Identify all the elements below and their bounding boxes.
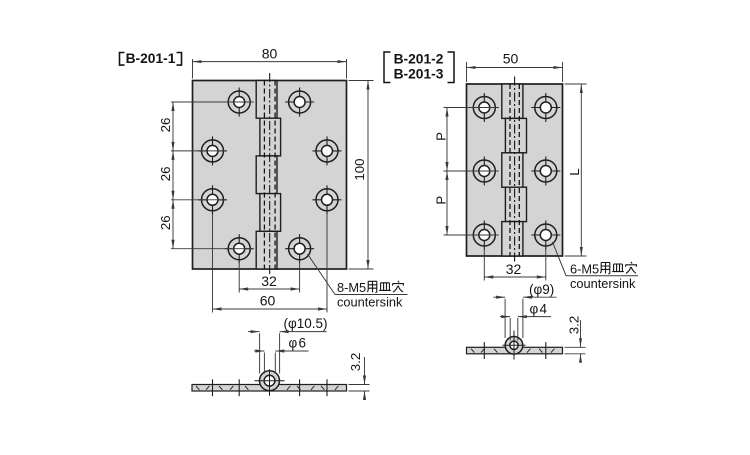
dimension P chain vertical line	[445, 108, 448, 236]
dimension phi4	[500, 302, 551, 341]
dimension 100 right height	[349, 81, 374, 270]
svg-text:3.2: 3.2	[348, 353, 363, 372]
svg-text:P: P	[433, 196, 448, 205]
svg-text:26: 26	[158, 118, 173, 133]
svg-text:φ6: φ6	[289, 335, 308, 350]
left hinge knuckle segment 3	[256, 156, 277, 194]
left hinge knuckle segment 1	[256, 81, 277, 119]
svg-text:φ9): φ9)	[534, 282, 555, 297]
right hinge knuckle segment 3	[502, 153, 523, 187]
left hinge B-201-1 front view	[193, 73, 347, 277]
countersunk hole left-hinge row2 right	[313, 136, 342, 165]
left hinge pin centerline	[269, 73, 271, 277]
left section knuckle circle outer	[260, 371, 280, 391]
svg-text:50: 50	[503, 51, 519, 67]
right hinge knuckle segment 2	[505, 118, 526, 152]
right section view bar	[467, 347, 563, 354]
right hinge pin hidden line right	[518, 84, 520, 256]
dimension 80 top width	[193, 46, 347, 79]
dimension 26 row extension lines	[171, 102, 254, 249]
svg-text:6-M5: 6-M5	[570, 261, 599, 276]
right hinge knuckle segment 5	[502, 222, 523, 256]
dimension 3.2 right section	[565, 316, 586, 363]
countersunk hole left-hinge row4 left	[225, 234, 254, 263]
svg-text:B-201-1: B-201-1	[126, 51, 176, 66]
countersunk hole left-hinge row1 right	[285, 88, 314, 117]
countersunk hole right-hinge row1 right	[531, 93, 560, 122]
countersunk hole left-hinge row3 left	[198, 185, 227, 214]
svg-text:B-201-3: B-201-3	[394, 67, 444, 82]
dimension 50 top width	[467, 51, 563, 83]
countersunk hole right-hinge row3 right	[531, 221, 560, 250]
right section pin hole circle	[510, 341, 518, 349]
left hinge body plate	[193, 81, 347, 270]
dimension phi10.5	[248, 316, 328, 373]
dimension 60 left view	[213, 214, 328, 313]
right hinge knuckle segment 4	[505, 187, 526, 221]
annotation 8-M5 countersink japanese	[337, 280, 403, 295]
countersunk hole right-hinge row1 left	[470, 93, 499, 122]
dimension 26 chain vertical line	[171, 102, 174, 249]
left hinge knuckle segment 5	[256, 231, 277, 269]
svg-text:80: 80	[262, 46, 278, 62]
svg-text:countersink: countersink	[337, 295, 403, 310]
svg-text:100: 100	[352, 158, 367, 180]
dimension 32 right view	[484, 249, 546, 281]
dimension phi6	[254, 335, 309, 373]
svg-text:8-M5: 8-M5	[337, 280, 366, 295]
countersunk hole left-hinge row3 right	[313, 185, 342, 214]
left hinge knuckle segment 4	[260, 194, 281, 232]
right hinge body plate	[467, 84, 563, 256]
svg-text:3.2: 3.2	[566, 316, 581, 335]
dimension P row extension lines	[444, 108, 500, 236]
svg-text:26: 26	[158, 166, 173, 181]
svg-text:φ10.5): φ10.5)	[288, 316, 328, 331]
dimension 3.2 left section	[348, 353, 369, 400]
left section pin hole circle	[264, 375, 275, 386]
dimension L right height	[565, 84, 587, 256]
right section hatch marks	[471, 349, 554, 353]
svg-text:B-201-2: B-201-2	[394, 52, 444, 67]
countersunk hole left-hinge row2 left	[198, 136, 227, 165]
svg-text:φ4: φ4	[530, 302, 549, 317]
leader line 6-M5 countersink	[553, 242, 639, 276]
right section circle crosshair	[503, 331, 526, 360]
svg-text:L: L	[567, 168, 582, 175]
left section hatch marks	[196, 386, 338, 390]
left section view bar	[192, 385, 347, 392]
countersunk hole left-hinge row4 right	[285, 234, 314, 263]
label B-201-2 B-201-3 bracketed	[384, 52, 454, 83]
svg-text:60: 60	[260, 293, 276, 309]
svg-text:P: P	[433, 132, 448, 141]
leader line 8-M5 countersink	[308, 254, 408, 295]
svg-text:countersink: countersink	[570, 276, 636, 291]
countersunk hole left-hinge row1 left	[225, 88, 254, 117]
left section circle crosshair	[255, 369, 285, 396]
dimension 32 left view	[239, 262, 299, 293]
svg-text:32: 32	[506, 261, 522, 277]
label B-201-1	[120, 51, 182, 66]
countersunk hole right-hinge row3 left	[470, 221, 499, 250]
countersunk hole right-hinge row2 right	[531, 157, 560, 186]
right hinge B-201-2/3 front view	[467, 77, 563, 264]
right hinge pin hidden line left	[509, 84, 511, 256]
dimension phi9	[494, 282, 557, 338]
countersunk hole right-hinge row2 left	[470, 157, 499, 186]
right section knuckle circle outer	[505, 337, 523, 355]
left section hole centerline ticks	[213, 379, 328, 396]
left hinge pin hidden line right	[274, 81, 276, 270]
svg-text:26: 26	[158, 215, 173, 230]
right hinge pin centerline	[514, 77, 516, 264]
svg-text:32: 32	[261, 273, 277, 289]
left hinge pin hidden line left	[263, 81, 265, 270]
left hinge knuckle segment 2	[260, 118, 281, 156]
right section hole centerline ticks	[484, 342, 546, 359]
right hinge knuckle segment 1	[502, 84, 523, 118]
annotation 6-M5 countersink japanese	[570, 261, 636, 276]
